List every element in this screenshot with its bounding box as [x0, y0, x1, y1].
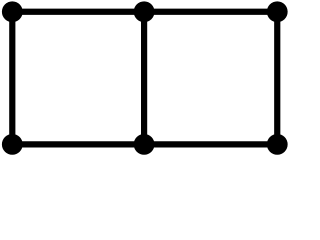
node bottom-right: [267, 134, 288, 155]
node top-left: [2, 1, 23, 22]
node top-right: [267, 1, 288, 22]
wire left vertical: [9, 12, 15, 145]
wire bottom-middle to bottom-right: [144, 141, 277, 147]
node bottom-middle: [134, 134, 155, 155]
node bottom-left: [2, 134, 23, 155]
wire middle vertical: [141, 12, 147, 145]
two-square grid graph (domino lattice): [0, 0, 290, 158]
wire top-middle to top-right: [144, 9, 277, 15]
wire top-left to top-middle: [12, 9, 144, 15]
node top-middle: [134, 1, 155, 22]
wire bottom-left to bottom-middle: [12, 141, 144, 147]
wire right vertical: [274, 12, 280, 145]
